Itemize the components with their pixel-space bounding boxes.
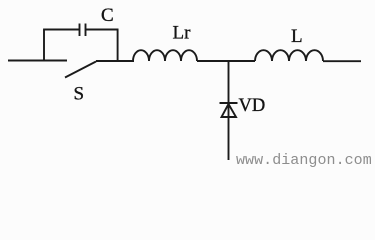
svg-text:VD: VD — [239, 96, 266, 116]
wire: capacitor loop top-left — [43, 29, 79, 31]
node A: junction of capacitor branch left leg with main wire — [43, 30, 45, 61]
svg-text:www.diangon.com: www.diangon.com — [236, 152, 372, 169]
svg-text:S: S — [74, 84, 85, 105]
wire: diode branch vertical — [228, 61, 230, 160]
capacitor C left plate — [79, 24, 81, 37]
wire: capacitor loop top-right — [86, 29, 119, 31]
svg-text:Lr: Lr — [173, 23, 192, 44]
inductor L — [255, 50, 323, 61]
diode VD cathode bar — [220, 102, 238, 104]
capacitor C right plate — [85, 24, 87, 37]
wire: capacitor loop right leg down to switch contact — [117, 30, 119, 62]
wire: from switch right contact to Lr — [96, 60, 134, 62]
svg-text:C: C — [101, 5, 114, 26]
diode VD triangle — [222, 104, 237, 117]
svg-text:L: L — [291, 26, 303, 47]
wire: Lr to node with diode — [197, 60, 255, 62]
inductor Lr — [133, 50, 197, 61]
switch S blade (open) — [65, 62, 96, 78]
wire: left input segment — [8, 60, 67, 62]
wire: right output segment — [323, 60, 361, 62]
